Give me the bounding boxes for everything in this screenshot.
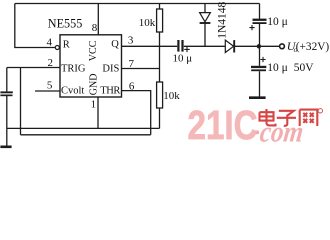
- svg-text:(+32V): (+32V): [296, 41, 330, 53]
- wire pin 7 to middle vertical: [122, 68, 160, 70]
- capacitor C3 (timing, far left): [0, 91, 12, 96]
- watermark .com script: [255, 130, 259, 134]
- wire pin 6 THR row and drop: [122, 91, 151, 135]
- wire pin 8 drop from rail: [97, 4, 99, 35]
- wire right vertical rail to C4: [259, 4, 261, 19]
- svg-text:50V: 50V: [294, 62, 315, 74]
- wire pin 2 TRIG row: [7, 67, 60, 69]
- svg-text:10 μ: 10 μ: [267, 62, 288, 74]
- svg-text:5: 5: [47, 80, 53, 92]
- output terminal circle: [280, 44, 285, 49]
- plus sign of C2: [260, 57, 265, 62]
- node output junction dot: [257, 44, 261, 48]
- svg-text:10k: 10k: [163, 90, 180, 102]
- wire D3 to output terminal: [235, 45, 280, 47]
- svg-text:DIS: DIS: [102, 64, 119, 75]
- ground bar left (C3 ground): [0, 146, 11, 149]
- svg-text:NE555: NE555: [48, 17, 83, 31]
- svg-text:8: 8: [92, 22, 98, 34]
- diode D1 1N4148 (vertical): [200, 13, 211, 23]
- svg-text:7: 7: [129, 58, 135, 70]
- svg-text:4: 4: [47, 36, 53, 48]
- wire R1 bottom to R2 top (through pin3 and pin7 junctions): [159, 32, 161, 82]
- wire pin 3 output row: [122, 45, 178, 47]
- wire D2 branch vertical: [204, 4, 206, 47]
- plus sign of C4: [249, 25, 254, 30]
- svg-text:VCC: VCC: [88, 40, 99, 61]
- svg-text:TRIG: TRIG: [61, 64, 86, 75]
- svg-text:R: R: [63, 40, 70, 51]
- svg-text:GND: GND: [89, 74, 100, 96]
- watermark registered mark: [318, 109, 322, 113]
- op-amp U1: NE555 IC body: [60, 35, 122, 97]
- wire C3 bottom to ground bar (crosses ground bus H1): [6, 96, 8, 146]
- watermark 网 character: [300, 110, 318, 126]
- plus sign of C1: [184, 47, 189, 52]
- wire R1 top lead: [159, 4, 161, 10]
- ground bar right (C2 ground): [249, 96, 266, 99]
- capacitor C2 10u 50V (output filter): [251, 66, 266, 71]
- svg-text:THR: THR: [100, 85, 120, 96]
- svg-text:Q: Q: [111, 39, 119, 50]
- capacitor C4 10u (top right, electrolytic): [253, 19, 267, 24]
- pin 4 inversion bubble: [55, 46, 59, 50]
- svg-text:1N4148: 1N4148: [217, 1, 229, 38]
- wire pin 5 stub: [35, 90, 60, 92]
- svg-text:1: 1: [91, 99, 97, 111]
- wire node B vertical: TRIG tie down to THR bus: [20, 68, 22, 135]
- wire C4 to output node to C2: [259, 24, 261, 66]
- svg-text:21IC: 21IC: [188, 102, 258, 148]
- wire THR tie bus H2: [21, 134, 151, 136]
- wire pin 1 GND drop: [97, 97, 99, 128]
- svg-text:2: 2: [47, 57, 53, 69]
- diode D2 (horizontal, to output): [225, 40, 234, 52]
- resistor R1 10k (top): [157, 9, 163, 32]
- svg-text:Cvolt: Cvolt: [61, 85, 84, 96]
- svg-text:10 μ: 10 μ: [173, 53, 193, 65]
- wire C2 bottom to ground bar: [259, 71, 261, 97]
- wire ground bus H1: [7, 127, 160, 129]
- watermark 子 character: [277, 111, 296, 126]
- svg-text:6: 6: [129, 81, 135, 93]
- capacitor C1 10u (coupling, horizontal): [177, 40, 183, 52]
- wire top supply rail: [15, 3, 260, 5]
- svg-text:10 μ: 10 μ: [267, 16, 288, 28]
- wire left vertical from rail to pin 4: [15, 4, 55, 48]
- watermark 电 character: [260, 109, 276, 125]
- resistor R2 10k (bottom): [157, 82, 163, 108]
- wire node A vertical: TRIG down to C3: [6, 68, 8, 92]
- svg-text:3: 3: [128, 34, 134, 46]
- wire R2 bottom lead to ground bus: [159, 108, 161, 128]
- wire C1 to D3: [184, 45, 225, 47]
- svg-text:10k: 10k: [139, 17, 156, 29]
